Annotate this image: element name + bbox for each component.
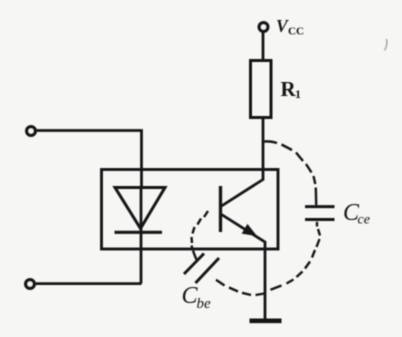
LED diode D1 triangle — [115, 188, 165, 229]
ground — [250, 318, 282, 323]
transistor Q1 collector diagonal — [222, 180, 264, 207]
capacitor Cbe plate 2 — [196, 258, 220, 283]
optocoupler package box — [102, 170, 279, 250]
wire resistor to collector — [262, 118, 265, 181]
transistor Q1 base bar — [219, 186, 222, 232]
LED diode D1 cathode bar — [115, 231, 163, 234]
capacitor Cbe plate 1 — [184, 254, 204, 275]
resistor R1 — [251, 61, 272, 118]
svg-text:be: be — [197, 296, 212, 312]
wire VCC to resistor — [262, 33, 265, 61]
node input terminal 2 — [26, 280, 35, 289]
node input terminal 1 — [27, 127, 36, 136]
scan artifact mark top right — [385, 39, 387, 51]
svg-text:ce: ce — [358, 213, 370, 228]
svg-text:1: 1 — [295, 87, 301, 101]
node VCC terminal circle — [259, 23, 268, 32]
wire through LED — [140, 186, 143, 284]
wire terminal1 to LED anode — [36, 131, 142, 188]
transistor Q1 emitter diagonal — [222, 215, 266, 243]
capacitor Cce top plate — [305, 205, 335, 208]
transistor Q1 emitter arrowhead — [243, 225, 257, 236]
wire terminal2 to LED cathode — [35, 282, 142, 285]
dashed loop arc top right — [264, 141, 316, 205]
svg-text:CC: CC — [288, 26, 304, 38]
dashed loop arc left — [192, 211, 209, 260]
dashed loop arc bottom right — [216, 222, 320, 295]
capacitor Cce bottom plate — [305, 218, 335, 221]
wire emitter to ground — [264, 241, 267, 319]
